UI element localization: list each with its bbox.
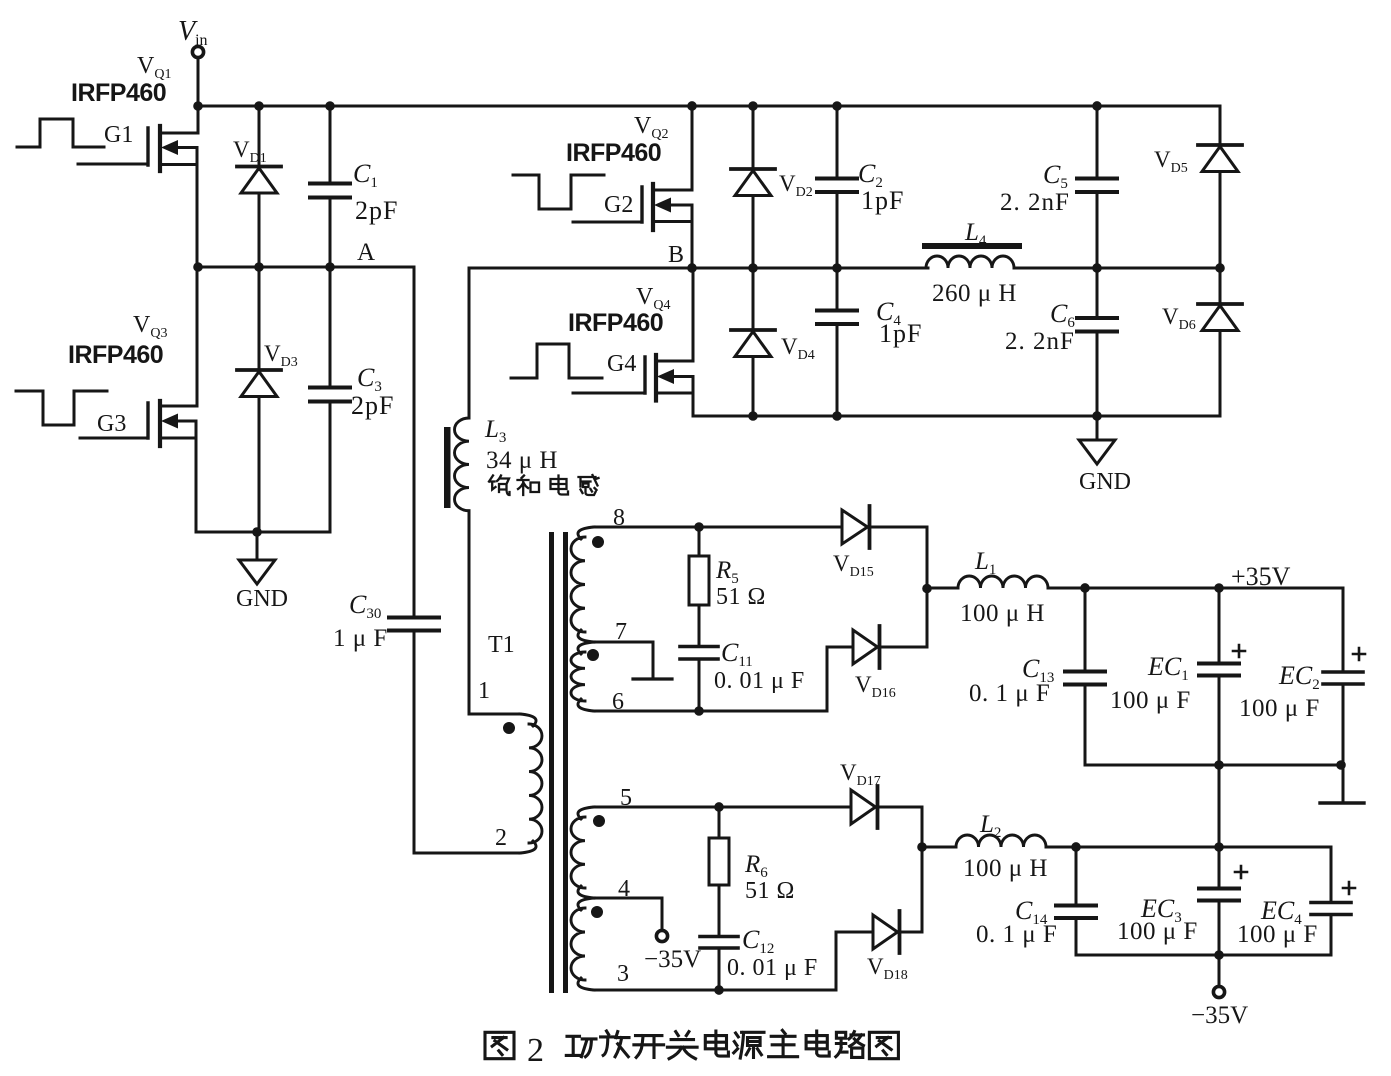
svg-text:51 Ω: 51 Ω [716,584,766,610]
svg-text:0. 01 μ F: 0. 01 μ F [714,668,805,694]
svg-text:G2: G2 [604,192,633,218]
svg-text:2pF: 2pF [351,391,394,420]
svg-text:100 μ H: 100 μ H [963,855,1048,882]
svg-text:51 Ω: 51 Ω [745,878,795,904]
svg-text:3: 3 [617,961,629,987]
svg-text:0. 1 μ F: 0. 1 μ F [969,680,1050,707]
svg-text:4: 4 [618,876,630,902]
svg-text:2. 2nF: 2. 2nF [1005,328,1075,355]
svg-text:260 μ H: 260 μ H [932,280,1017,307]
svg-text:T1: T1 [488,632,515,658]
svg-text:B: B [668,242,684,268]
svg-text:100 μ F: 100 μ F [1110,687,1191,714]
svg-text:1: 1 [478,678,490,704]
svg-text:2pF: 2pF [355,196,398,225]
svg-text:2: 2 [527,1032,544,1069]
svg-text:2: 2 [495,825,507,851]
svg-text:0. 1 μ F: 0. 1 μ F [976,921,1057,948]
svg-text:8: 8 [613,505,625,531]
svg-text:1 μ F: 1 μ F [333,625,388,652]
svg-text:0. 01 μ F: 0. 01 μ F [727,955,818,981]
svg-text:5: 5 [620,785,632,811]
svg-text:A: A [357,239,375,266]
svg-text:2. 2nF: 2. 2nF [1000,189,1070,216]
svg-text:GND: GND [236,586,288,612]
svg-text:100 μ F: 100 μ F [1117,918,1198,945]
svg-text:IRFP460: IRFP460 [566,139,661,167]
svg-text:G3: G3 [97,411,126,437]
svg-text:IRFP460: IRFP460 [68,341,163,369]
svg-text:−35V: −35V [1191,1002,1248,1029]
svg-text:7: 7 [615,619,627,645]
svg-text:100 μ F: 100 μ F [1239,695,1320,722]
svg-text:6: 6 [612,689,624,715]
svg-text:G4: G4 [607,351,636,377]
svg-text:GND: GND [1079,469,1131,495]
svg-text:100 μ F: 100 μ F [1237,921,1318,948]
svg-text:100 μ H: 100 μ H [960,600,1045,627]
svg-text:−35V: −35V [644,946,701,973]
svg-text:IRFP460: IRFP460 [71,79,166,107]
svg-text:1pF: 1pF [879,319,922,348]
svg-text:+35V: +35V [1231,562,1291,591]
svg-text:IRFP460: IRFP460 [568,309,663,337]
svg-text:G1: G1 [104,122,133,148]
svg-text:1pF: 1pF [861,186,904,215]
svg-text:34 μ H: 34 μ H [486,447,558,474]
